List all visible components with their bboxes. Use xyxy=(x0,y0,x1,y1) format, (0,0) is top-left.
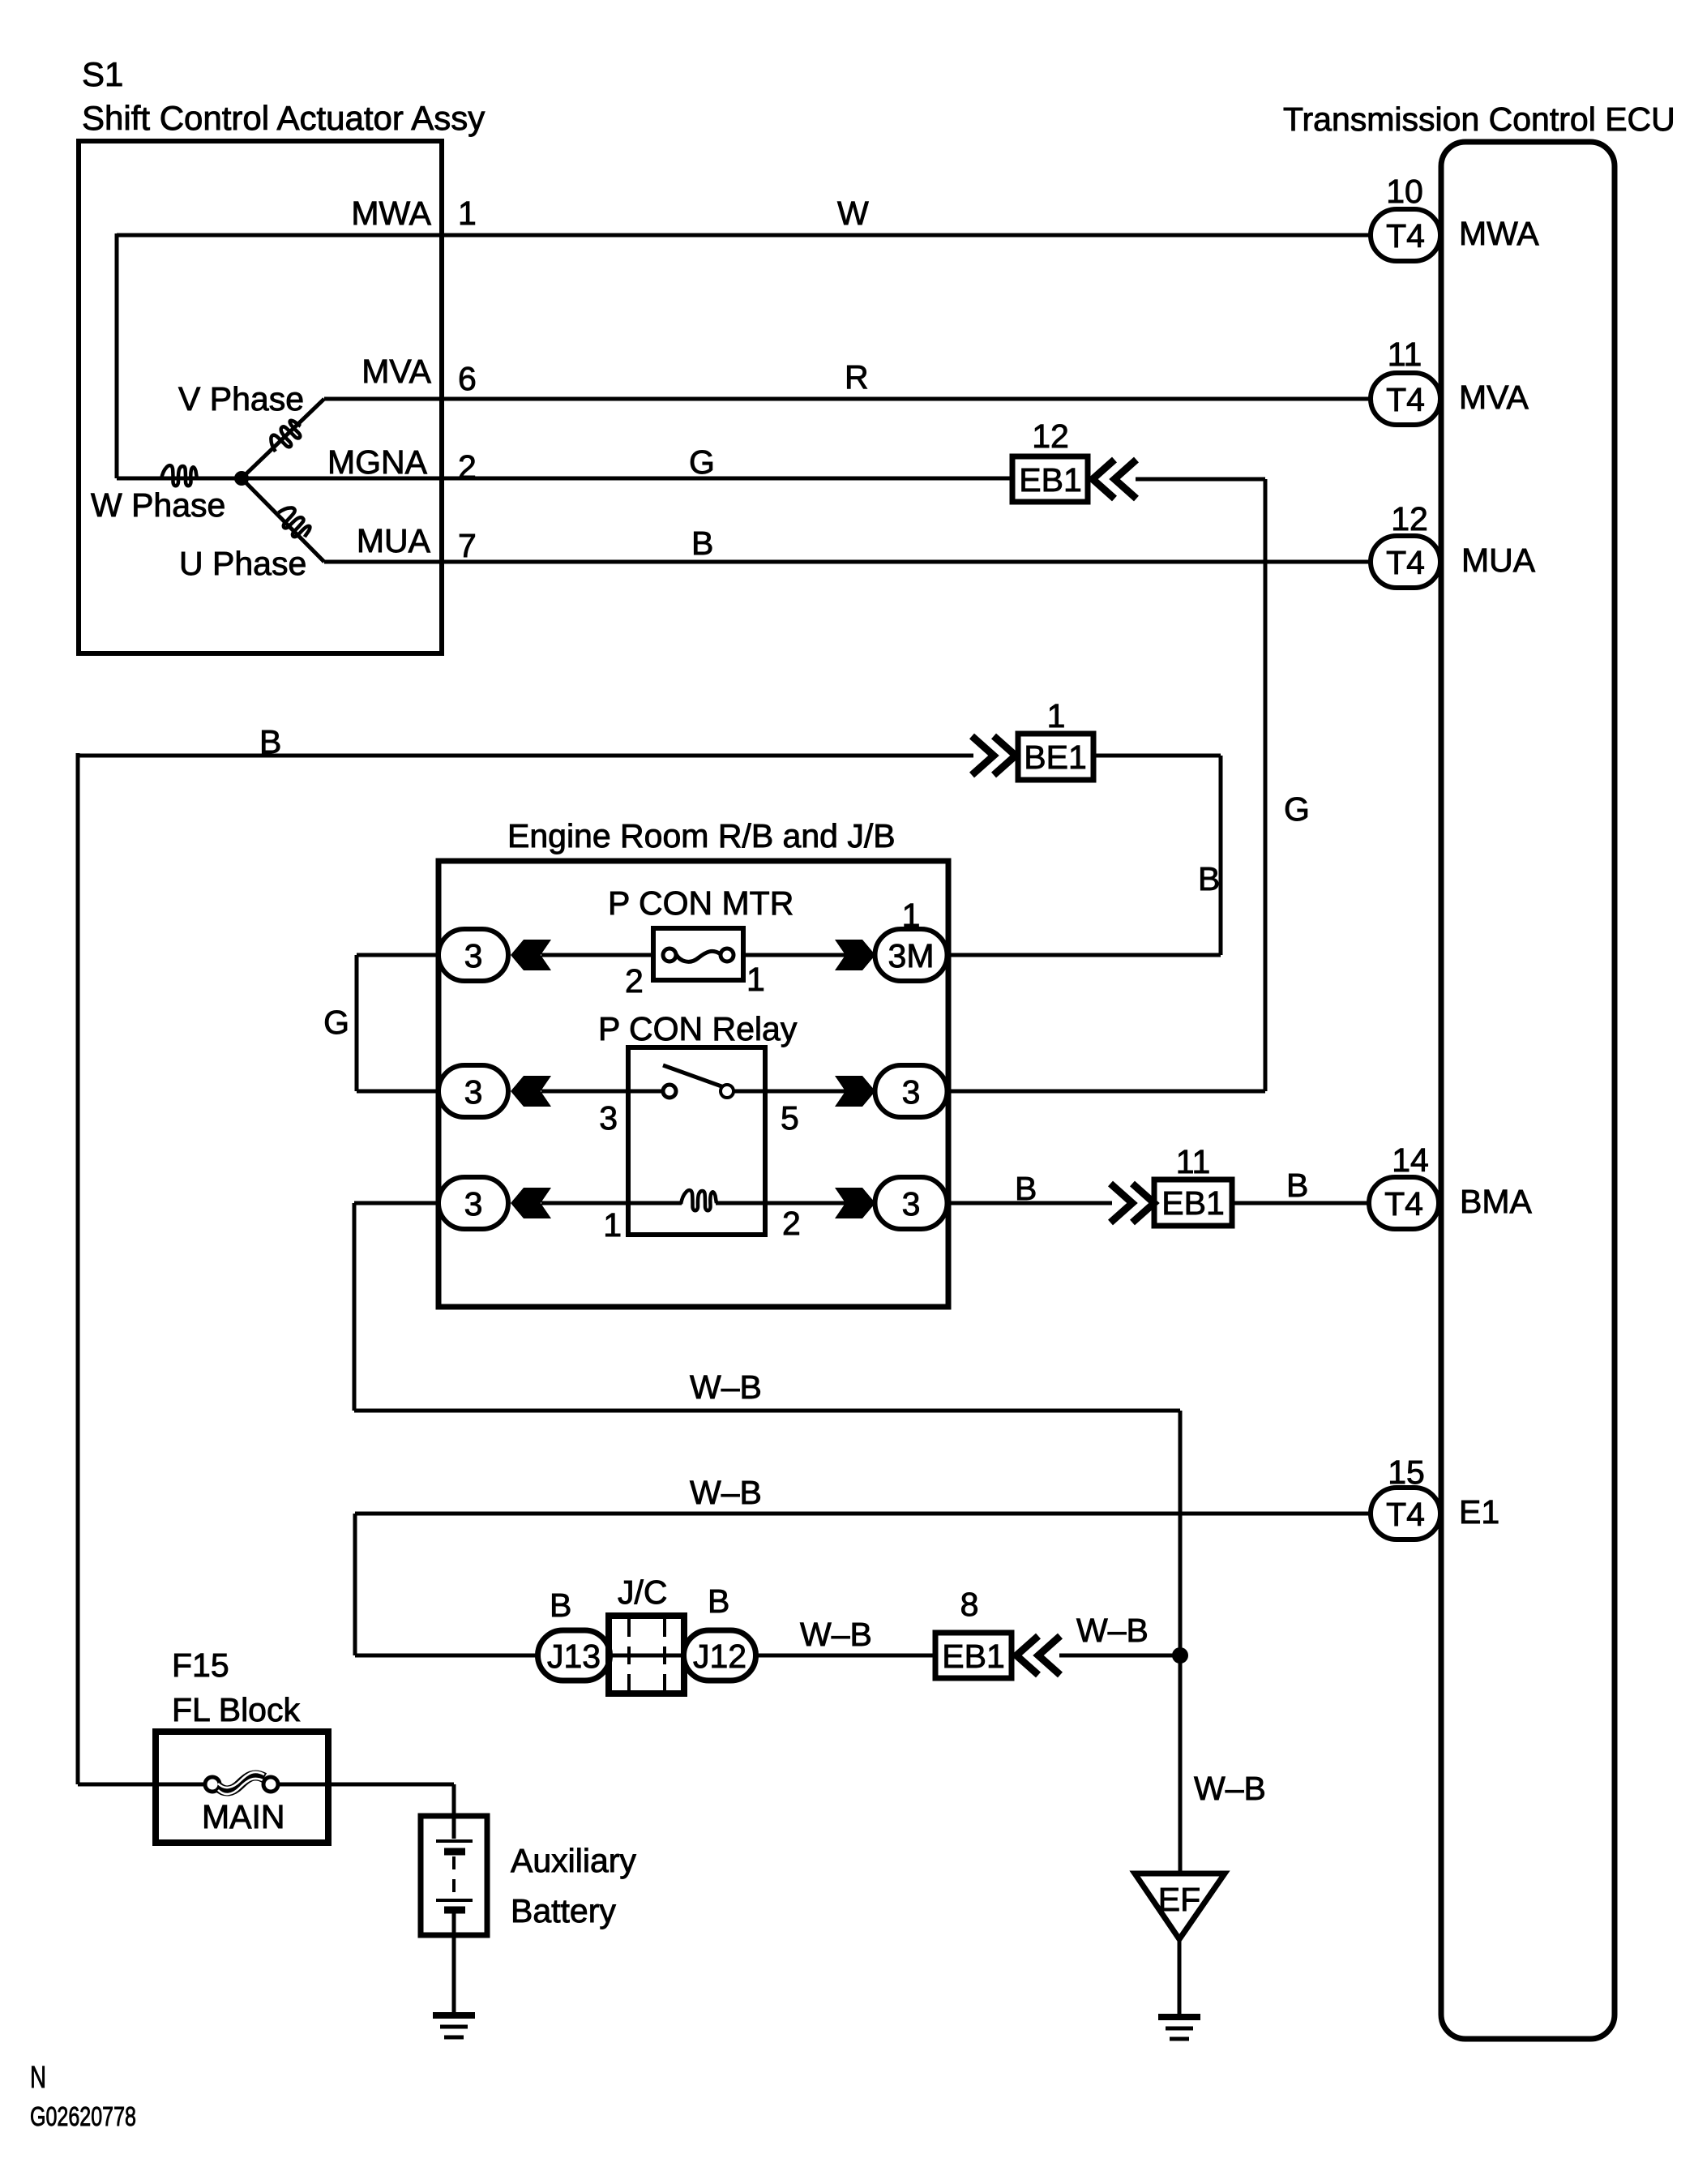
svg-text:T4: T4 xyxy=(1386,1496,1425,1533)
pin 15 xyxy=(1388,1454,1425,1491)
svg-text:G: G xyxy=(1284,790,1310,828)
svg-text:FL Block: FL Block xyxy=(172,1691,300,1728)
label FL Block xyxy=(172,1691,300,1728)
wire relay row right xyxy=(734,1090,845,1094)
svg-text:1: 1 xyxy=(746,961,765,998)
wire BMA b xyxy=(1232,1201,1371,1205)
wire EB1 to junction xyxy=(1059,1654,1180,1658)
svg-text:Battery: Battery xyxy=(511,1892,616,1929)
svg-text:W Phase: W Phase xyxy=(91,486,225,524)
wire coil row left xyxy=(354,1201,438,1205)
label B net vertical xyxy=(1198,860,1220,897)
label B over J13 xyxy=(550,1587,571,1624)
svg-text:W–B: W–B xyxy=(800,1616,872,1653)
wire E1 to J13 xyxy=(355,1654,539,1658)
label W Phase xyxy=(91,486,225,524)
wire MGNA right of EB1 xyxy=(1136,477,1265,482)
svg-text:3: 3 xyxy=(902,1073,921,1111)
svg-text:B: B xyxy=(691,525,713,562)
junction connector J/C box xyxy=(609,1616,684,1694)
label MVA ecu xyxy=(1459,379,1529,416)
svg-text:B: B xyxy=(1015,1170,1037,1207)
svg-text:W–B: W–B xyxy=(690,1368,762,1406)
connector T4 pin 10 xyxy=(1371,209,1440,261)
connector T4 pin 12 xyxy=(1371,536,1440,588)
label F15 xyxy=(172,1647,229,1684)
label Engine Room R/B and J/B xyxy=(507,817,896,854)
relay pin 1 xyxy=(603,1206,622,1244)
label B over J12 xyxy=(708,1582,729,1620)
label G net xyxy=(1284,790,1310,828)
wire W-B horizontal xyxy=(354,1409,1180,1413)
svg-text:G02620778: G02620778 xyxy=(30,2101,136,2131)
label W-B 3 xyxy=(800,1616,872,1653)
winding W Phase xyxy=(161,465,197,486)
label MAIN xyxy=(202,1798,285,1835)
wire coil row inside b xyxy=(716,1201,845,1205)
svg-text:Transmission Control ECU: Transmission Control ECU xyxy=(1283,101,1675,138)
wire MWA inside S1 xyxy=(117,233,1371,238)
svg-text:1: 1 xyxy=(458,195,477,232)
svg-text:S1: S1 xyxy=(82,55,123,93)
pin 11 xyxy=(1388,336,1422,373)
transmission control ECU box xyxy=(1441,142,1615,2039)
label W-B 5 xyxy=(1194,1770,1266,1807)
auxiliary battery xyxy=(421,1816,487,1935)
pin 14 xyxy=(1392,1141,1429,1179)
label MWA ecu xyxy=(1459,215,1539,252)
svg-text:3: 3 xyxy=(464,937,483,974)
svg-text:3: 3 xyxy=(599,1099,618,1137)
label S1 xyxy=(82,55,123,93)
relay pin 2 xyxy=(782,1205,801,1242)
label J/C xyxy=(618,1574,668,1611)
svg-text:MAIN: MAIN xyxy=(202,1798,285,1835)
connector EB1 (12) xyxy=(1012,456,1088,502)
ground below battery xyxy=(433,2015,475,2037)
connector T4 pin 14 xyxy=(1369,1177,1439,1229)
label B BMA left xyxy=(1015,1170,1037,1207)
svg-text:N: N xyxy=(30,2061,46,2095)
svg-text:EB1: EB1 xyxy=(942,1638,1005,1675)
label B BMA right xyxy=(1286,1167,1308,1204)
svg-text:MGNA: MGNA xyxy=(327,443,428,481)
svg-text:B: B xyxy=(550,1587,571,1624)
pin 2 xyxy=(458,448,477,486)
wire battery top lead xyxy=(452,1784,456,1839)
wire BMA a xyxy=(948,1201,1112,1205)
svg-text:7: 7 xyxy=(458,527,477,564)
arrows into EB1 (8) xyxy=(1016,1636,1060,1675)
wire V phase diagonal xyxy=(242,399,324,478)
wire U phase diagonal xyxy=(242,478,324,562)
svg-text:B: B xyxy=(708,1582,729,1620)
wire W-B down to EF xyxy=(1179,1411,1183,1874)
label G02620778 xyxy=(30,2101,136,2131)
svg-text:B: B xyxy=(259,723,281,760)
label MWA pin xyxy=(351,195,431,232)
winding U Phase xyxy=(274,503,314,542)
connector BE1 xyxy=(1018,734,1093,780)
svg-text:EB1: EB1 xyxy=(1019,461,1082,499)
node star point xyxy=(234,471,249,486)
svg-text:6: 6 xyxy=(458,360,477,397)
relay coil xyxy=(681,1190,717,1210)
label Transmission Control ECU xyxy=(1283,101,1675,138)
label P CON Relay xyxy=(598,1010,798,1047)
fusible link block F15 xyxy=(156,1732,328,1843)
connector EB1 (11) xyxy=(1154,1180,1232,1226)
fuse pin 1 xyxy=(746,961,765,998)
svg-text:MWA: MWA xyxy=(351,195,431,232)
svg-text:W–B: W–B xyxy=(1194,1770,1266,1807)
svg-text:J13: J13 xyxy=(547,1638,601,1675)
wire G row2 stub xyxy=(357,1090,438,1094)
svg-text:U Phase: U Phase xyxy=(179,545,306,582)
svg-text:T4: T4 xyxy=(1386,381,1425,418)
svg-text:2: 2 xyxy=(625,962,644,1000)
connector 3 row1 xyxy=(438,929,508,981)
connector T4 pin 15 xyxy=(1371,1488,1440,1540)
svg-text:W–B: W–B xyxy=(1076,1612,1149,1649)
label U Phase xyxy=(179,545,306,582)
connector J13 xyxy=(538,1630,610,1681)
wire coil row mid xyxy=(541,1201,628,1205)
svg-text:V Phase: V Phase xyxy=(178,380,304,418)
connector J12 xyxy=(684,1630,756,1681)
wire E1 vertical xyxy=(353,1514,357,1655)
svg-text:14: 14 xyxy=(1392,1141,1429,1179)
arrows into EB1 (11) xyxy=(1110,1184,1154,1223)
svg-text:2: 2 xyxy=(782,1205,801,1242)
pin 12 of EB1 xyxy=(1032,418,1069,455)
arrow left row2 xyxy=(511,1076,551,1107)
svg-text:T4: T4 xyxy=(1384,1185,1423,1223)
svg-text:Auxiliary: Auxiliary xyxy=(511,1842,636,1879)
label R wire color xyxy=(845,358,869,396)
label MGNA pin xyxy=(327,443,428,481)
node W-B junction xyxy=(1172,1647,1188,1664)
wire through J/C xyxy=(608,1654,686,1658)
svg-text:3M: 3M xyxy=(888,937,935,974)
wire relay row left xyxy=(541,1090,663,1094)
arrow left row1 xyxy=(511,940,551,970)
relay pin 3 xyxy=(599,1099,618,1137)
engine room junction box xyxy=(438,861,948,1307)
ground below EF xyxy=(1158,2017,1200,2039)
svg-text:R: R xyxy=(845,358,869,396)
pin 11 of EB1 xyxy=(1176,1143,1211,1180)
label E1 ecu xyxy=(1459,1493,1499,1531)
svg-text:3: 3 xyxy=(902,1185,921,1223)
svg-text:F15: F15 xyxy=(172,1647,229,1684)
connector 3 row3 right xyxy=(875,1177,948,1229)
wire W phase horizontal xyxy=(117,477,242,481)
wire into FL block xyxy=(78,1783,212,1787)
svg-text:12: 12 xyxy=(1032,418,1069,455)
svg-text:1: 1 xyxy=(1047,697,1066,734)
fuse P CON MTR xyxy=(653,928,743,980)
label W-B 2 xyxy=(690,1474,762,1511)
label W wire color xyxy=(837,195,869,232)
label W-B 4 xyxy=(1076,1612,1149,1649)
svg-text:B: B xyxy=(1198,860,1220,897)
svg-text:BMA: BMA xyxy=(1460,1183,1533,1220)
winding V Phase xyxy=(266,417,306,456)
connector 3 row2 left xyxy=(438,1065,508,1117)
svg-text:E1: E1 xyxy=(1459,1493,1499,1531)
wire MVA xyxy=(324,397,1371,401)
svg-text:8: 8 xyxy=(960,1586,979,1623)
wire G from relay output xyxy=(948,1090,1265,1094)
pin 10 xyxy=(1386,173,1423,210)
pin 6 xyxy=(458,360,477,397)
svg-text:P CON MTR: P CON MTR xyxy=(608,884,794,922)
svg-text:J12: J12 xyxy=(693,1638,746,1675)
label B wire color MUA xyxy=(691,525,713,562)
wire fuse row a xyxy=(541,953,653,957)
connector 3 row2 right xyxy=(875,1065,948,1117)
svg-text:P CON Relay: P CON Relay xyxy=(598,1010,798,1047)
wire G vertical xyxy=(1264,479,1268,1091)
svg-text:T4: T4 xyxy=(1386,544,1425,581)
wire FL to battery xyxy=(278,1783,454,1787)
label P CON MTR xyxy=(608,884,794,922)
svg-text:MWA: MWA xyxy=(1459,215,1539,252)
svg-text:BE1: BE1 xyxy=(1024,739,1087,776)
svg-text:3: 3 xyxy=(464,1073,483,1111)
label V Phase xyxy=(178,380,304,418)
svg-text:Engine Room R/B and J/B: Engine Room R/B and J/B xyxy=(507,817,896,854)
connector 3M xyxy=(875,929,948,981)
label W-B 1 xyxy=(690,1368,762,1406)
wire J12 to EB1 xyxy=(755,1654,935,1658)
svg-text:10: 10 xyxy=(1386,173,1423,210)
arrow right row1 xyxy=(835,940,875,970)
wire B horizontal xyxy=(78,754,973,758)
pin 8 of EB1 xyxy=(960,1586,979,1623)
pin 1 of BE1 xyxy=(1047,697,1066,734)
relay switch xyxy=(663,1065,734,1098)
label N xyxy=(30,2061,46,2095)
label G net left xyxy=(323,1004,349,1041)
wire W phase vertical xyxy=(115,233,119,478)
label Shift Control Actuator Assy xyxy=(82,99,485,137)
svg-text:1: 1 xyxy=(603,1206,622,1244)
relay box P CON Relay xyxy=(628,1047,765,1235)
svg-text:W–B: W–B xyxy=(690,1474,762,1511)
svg-text:5: 5 xyxy=(781,1099,799,1137)
pin 12 xyxy=(1391,500,1428,537)
label B wire color xyxy=(259,723,281,760)
fuse pin 2 xyxy=(625,962,644,1000)
svg-text:Shift Control Actuator Assy: Shift Control Actuator Assy xyxy=(82,99,485,137)
pin 1 of 3M xyxy=(902,897,921,934)
svg-text:T4: T4 xyxy=(1386,217,1425,255)
ground connector EF xyxy=(1135,1874,1225,1939)
arrow right row2 xyxy=(835,1076,875,1107)
arrow left row3 xyxy=(511,1188,551,1218)
svg-text:G: G xyxy=(323,1004,349,1041)
wire fuse row b xyxy=(743,953,845,957)
svg-text:EF: EF xyxy=(1158,1881,1200,1918)
svg-text:12: 12 xyxy=(1391,500,1428,537)
wire B into 3M xyxy=(946,953,1221,957)
shift control actuator box S1 xyxy=(79,141,442,653)
label Auxiliary xyxy=(511,1842,636,1879)
arrow right row3 xyxy=(835,1188,875,1218)
wire coil row inside a xyxy=(628,1201,682,1205)
label BMA ecu xyxy=(1460,1183,1533,1220)
connector T4 pin 11 xyxy=(1371,373,1440,425)
label Battery xyxy=(511,1892,616,1929)
label G wire color xyxy=(689,443,715,481)
svg-text:11: 11 xyxy=(1388,336,1422,373)
svg-text:MVA: MVA xyxy=(361,353,431,390)
svg-text:EB1: EB1 xyxy=(1161,1184,1225,1222)
wire fuse row left xyxy=(357,953,438,957)
svg-text:J/C: J/C xyxy=(618,1574,668,1611)
wire MGNA left xyxy=(242,477,1012,481)
svg-text:B: B xyxy=(1286,1167,1308,1204)
wire W-B vertical from coil row xyxy=(353,1203,357,1411)
wire E1 horizontal xyxy=(355,1512,1371,1516)
svg-text:MUA: MUA xyxy=(357,522,431,559)
wire B vertical to 3M xyxy=(1219,756,1223,955)
arrows into BE1 xyxy=(972,736,1016,775)
wire MUA xyxy=(324,560,1371,564)
wire BE1 to corner xyxy=(1093,754,1221,758)
svg-text:G: G xyxy=(689,443,715,481)
wire EF to ground xyxy=(1178,1939,1182,2017)
svg-text:W: W xyxy=(837,195,869,232)
wire battery bottom lead xyxy=(452,1910,456,2015)
svg-text:11: 11 xyxy=(1176,1143,1211,1180)
label MUA pin xyxy=(357,522,431,559)
svg-text:MUA: MUA xyxy=(1461,542,1536,579)
pin 1 xyxy=(458,195,477,232)
connector EB1 (8) xyxy=(935,1633,1012,1678)
svg-text:3: 3 xyxy=(464,1185,483,1223)
label MVA pin xyxy=(361,353,431,390)
wire G row1 stub xyxy=(355,955,359,1091)
connector 3 row3 left xyxy=(438,1177,508,1229)
fusible link MAIN xyxy=(205,1772,278,1794)
label MUA ecu xyxy=(1461,542,1536,579)
wire B left vertical xyxy=(76,753,80,1784)
relay pin 5 xyxy=(781,1099,799,1137)
svg-text:MVA: MVA xyxy=(1459,379,1529,416)
arrows into EB1 (12) xyxy=(1093,460,1136,499)
pin 7 xyxy=(458,527,477,564)
